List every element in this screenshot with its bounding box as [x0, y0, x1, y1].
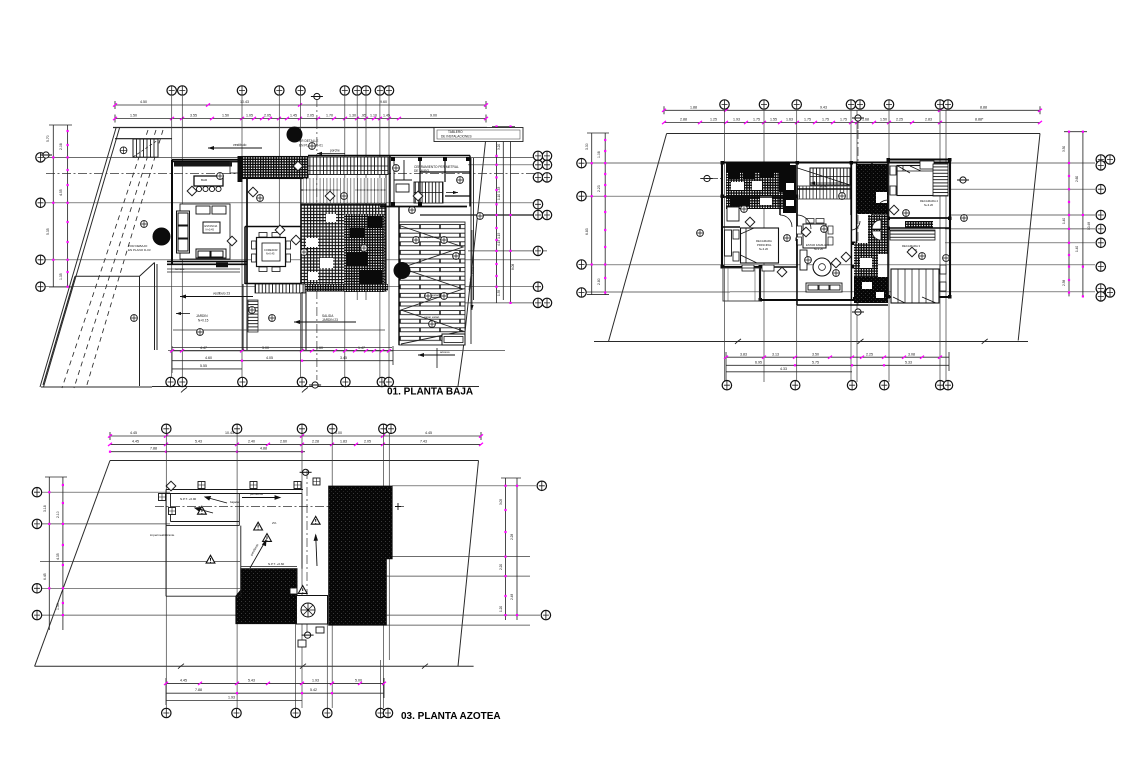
p1 hall between porch and patio: [301, 175, 386, 204]
p3 left dim texts: [43, 505, 60, 610]
svg-text:3.05: 3.05: [499, 499, 503, 505]
svg-text:2.08: 2.08: [59, 143, 63, 150]
svg-text:2.20: 2.20: [499, 564, 503, 570]
p1 grid bubbles top row: [167, 86, 394, 95]
svg-text:4.55: 4.55: [59, 189, 63, 196]
svg-text:2.23: 2.23: [597, 185, 601, 192]
svg-text:1.40: 1.40: [1062, 218, 1066, 224]
svg-text:7.43: 7.43: [420, 439, 427, 443]
p2 section centerline vertical: [857, 130, 859, 305]
p2 section mark left: [700, 175, 722, 181]
p1 service rooms right wing: [394, 160, 412, 203]
svg-text:4.50: 4.50: [140, 100, 147, 104]
p2 balcony below left bedroom: [723, 268, 760, 301]
p3 bottom dim ticks: [164, 682, 386, 695]
p1 garage box bottom: [442, 334, 465, 345]
p1 oplus symbols: [120, 143, 483, 336]
svg-text:7.88: 7.88: [195, 688, 202, 692]
svg-text:3.13: 3.13: [772, 352, 779, 356]
p3 left grid horizontals: [40, 492, 300, 615]
p3 right dim ticks: [504, 485, 518, 617]
p1 terrace steps lower-left: [167, 269, 240, 272]
svg-text:7.88: 7.88: [150, 447, 157, 451]
p3 top dim ticks: [108, 434, 483, 452]
svg-text:porche: porche: [330, 149, 340, 153]
svg-text:1.50: 1.50: [130, 114, 137, 118]
p2 left dim texts: [585, 143, 601, 285]
svg-text:4.88: 4.88: [260, 447, 267, 451]
p1 bottom dim magenta ticks: [170, 349, 391, 362]
p2 right dim texts: [1062, 146, 1091, 286]
p2 top-right bedroom labels: [920, 199, 938, 207]
p2 left bedroom couch: [725, 207, 740, 256]
p1 patio bottom steps band: [300, 284, 388, 291]
p1 bottom dim texts: [200, 346, 365, 368]
svg-text:1.50: 1.50: [222, 114, 229, 118]
p2 section mark bottom: [852, 309, 864, 315]
p3 left-edge vent boxes: [159, 494, 176, 515]
p3 right dim stack: [501, 478, 521, 620]
p1 stair darker blobs: [346, 216, 382, 288]
p3 section mark top: [300, 469, 312, 475]
p2 site boundary bottom edge: [594, 341, 1028, 343]
p2 door jamb blobs: [721, 158, 952, 302]
p2 sala label: [806, 243, 829, 251]
p1 heavy grid segment right: [420, 214, 547, 216]
p1 left grid horizontals: [45, 157, 540, 286]
p1 parking bars area: [399, 222, 465, 345]
p2 laundry top band: [726, 164, 796, 214]
p1 grid bubbles left column: [36, 153, 45, 292]
p1 living table: [203, 222, 220, 233]
svg-text:N.P.T. +6.60: N.P.T. +6.60: [268, 562, 285, 566]
p2 shaft dark center: [856, 164, 888, 214]
svg-text:vestibulo: vestibulo: [233, 143, 246, 147]
svg-text:1.47: 1.47: [358, 346, 365, 350]
p2 laundry white bits: [731, 181, 794, 206]
p3 grid bubbles top row: [162, 424, 396, 433]
p1 section mark bottom: [309, 382, 321, 388]
p3 terrace lower-left outline: [166, 494, 241, 597]
svg-text:sube: sube: [820, 185, 827, 189]
p1 stair dark block in patio: [344, 214, 384, 292]
p1 site boundary right edge: [458, 128, 487, 387]
p2 bottom-right closet: [890, 221, 935, 240]
svg-text:4.45: 4.45: [425, 431, 432, 435]
p1 top dimension line 1: [115, 101, 486, 109]
svg-text:3.20: 3.20: [497, 144, 501, 150]
p3 level text: [180, 497, 285, 566]
p2 site boundary left edge: [609, 134, 667, 342]
svg-text:4.35: 4.35: [56, 553, 60, 560]
p1 tree top: [287, 127, 303, 143]
svg-text:1.55: 1.55: [770, 118, 777, 122]
svg-text:N+0.45: N+0.45: [266, 252, 275, 256]
p3 grid bubbles bottom row: [162, 708, 393, 717]
svg-text:BAR: BAR: [201, 178, 208, 182]
svg-text:1.25: 1.25: [710, 118, 717, 122]
svg-text:2.80: 2.80: [597, 278, 601, 285]
svg-text:2.28: 2.28: [510, 534, 514, 540]
p1 right dim texts: [497, 144, 515, 296]
p2 bottom-right bedroom walls: [888, 228, 950, 297]
svg-text:1.88: 1.88: [690, 105, 697, 109]
p2 round table: [813, 258, 831, 276]
p2 building outer walls: [722, 160, 950, 301]
p1 patio tile hatch: [301, 204, 386, 291]
svg-text:1.45: 1.45: [290, 114, 297, 118]
p3 bottom dim texts: [180, 678, 362, 699]
p2 site boundary right edge: [1018, 134, 1040, 341]
p3 break marks bottom: [178, 664, 428, 669]
p1 break marks street: [181, 387, 308, 392]
p1 left dim stack: [49, 125, 72, 287]
p1 right dim stack: [492, 127, 515, 304]
p3 top dimension line 2: [110, 443, 481, 445]
svg-text:1.70: 1.70: [326, 114, 333, 118]
svg-text:.95: .95: [361, 114, 366, 118]
p1 boundary fence right: [471, 158, 474, 344]
p1 corridor left jamb band: [238, 156, 243, 182]
p3 section centerline vertical: [306, 470, 308, 640]
p3 title: [401, 711, 501, 722]
svg-text:JARDIN: JARDIN: [196, 314, 208, 318]
p1 right wing interior walls: [420, 158, 470, 206]
svg-text:TABLERO: TABLERO: [448, 130, 463, 134]
p1 terrace label: [175, 262, 228, 271]
p3 grid verticals: [166, 433, 389, 708]
svg-text:4.45: 4.45: [132, 439, 139, 443]
svg-text:5.43: 5.43: [195, 439, 202, 443]
p3 centerline dashdot horizontal: [155, 506, 405, 508]
svg-text:9.43: 9.43: [820, 105, 827, 109]
p1 top dim texts: [130, 100, 437, 118]
p1 diamond tags: [187, 161, 423, 246]
svg-text:ESTANCIA: ESTANCIA: [205, 224, 218, 228]
p3 site boundary left edge: [35, 461, 110, 667]
p1 vestibule hatch corridor: [242, 157, 308, 179]
svg-text:2.05: 2.05: [307, 114, 314, 118]
svg-text:N+0.45: N+0.45: [206, 228, 215, 232]
svg-text:terraza: terraza: [175, 267, 185, 271]
p2 grid bubbles left column: [577, 159, 586, 298]
p2 stair top-center: [798, 168, 851, 199]
svg-text:1.40: 1.40: [1075, 246, 1079, 252]
svg-text:1.75: 1.75: [840, 118, 847, 122]
svg-text:10.48: 10.48: [1087, 222, 1091, 230]
svg-text:5.35: 5.35: [46, 228, 50, 235]
p2 site boundary top edge: [667, 133, 1040, 135]
svg-text:5.00: 5.00: [355, 678, 362, 682]
svg-text:2%: 2%: [272, 521, 277, 525]
p1 dining table: [252, 233, 291, 272]
p2 top dim texts: [680, 105, 987, 121]
svg-text:5.33: 5.33: [905, 361, 912, 365]
svg-text:4.05: 4.05: [266, 356, 273, 360]
p1 building left wall: [171, 160, 173, 264]
p1 upper-right planter text: [441, 130, 472, 139]
p1 car arrow bottom: [418, 348, 455, 368]
p1 section centerline vertical: [316, 120, 318, 380]
p3 spiral stair: [301, 603, 315, 617]
svg-text:3.50: 3.50: [812, 352, 819, 356]
p1 right partial grid horizontals: [462, 165, 547, 303]
svg-text:acceso: acceso: [440, 350, 450, 354]
svg-text:N+3.20: N+3.20: [814, 247, 824, 251]
p1 left dim ticks: [52, 130, 68, 288]
p1 column stubs bottom: [243, 284, 306, 350]
p1 porch hatch: [308, 157, 388, 175]
p1 stairs upper-left site: [115, 139, 172, 158]
p1 centerline dashdot: [46, 173, 540, 175]
p1 street line bottom: [41, 386, 479, 389]
p1 right dim ticks: [495, 125, 511, 304]
p3 middle roof boundary: [241, 494, 302, 596]
svg-text:3.83: 3.83: [740, 352, 747, 356]
p2 left dim stack: [587, 133, 609, 295]
p1 upper-right planter rect: [434, 128, 523, 142]
p1 exterior stairs right: [414, 182, 443, 203]
svg-text:5.43: 5.43: [248, 678, 255, 682]
p3 slope labels: [150, 492, 277, 557]
svg-text:1.35: 1.35: [497, 290, 501, 296]
p3 level step line: [241, 566, 297, 568]
p2 oplus symbols: [697, 193, 968, 277]
svg-text:2.10: 2.10: [56, 511, 60, 518]
p3 roof dark region B: [236, 569, 297, 624]
svg-text:4.47: 4.47: [200, 346, 207, 350]
svg-text:5.70: 5.70: [46, 135, 50, 142]
svg-text:3.08: 3.08: [908, 352, 915, 356]
svg-text:8.88: 8.88: [980, 105, 987, 109]
p3 spiral stair white box: [297, 596, 328, 625]
p1 right wing bottom wall: [380, 206, 467, 208]
p2 top-right closet hatch: [933, 164, 948, 196]
p1 grid bubbles right column: [533, 151, 551, 307]
p2 diamond tags: [745, 205, 917, 277]
p2 grid bubbles top row: [720, 100, 953, 109]
p1 ramp label rotated: [467, 230, 475, 310]
p1 patio white spots: [306, 214, 336, 280]
svg-text:1.63: 1.63: [786, 118, 793, 122]
p1 vestibule arrow: [208, 143, 262, 150]
svg-text:2.05: 2.05: [264, 114, 271, 118]
p3 site boundary bottom edge: [35, 665, 474, 667]
p2 grid bubbles right column: [1096, 155, 1115, 301]
p2 top dimension line 2: [664, 122, 1040, 124]
svg-text:1.05: 1.05: [246, 114, 253, 118]
p1 porch top wall right: [308, 156, 390, 207]
p2 left grid horizontals: [585, 163, 1095, 292]
p2 right dim stack: [1064, 132, 1087, 297]
p1 site boundary top edge: [113, 127, 487, 129]
p2 left bedroom labels: [756, 239, 772, 251]
p3 warning triangles: [198, 506, 321, 593]
p3 left dim stack: [45, 477, 67, 630]
svg-text:8.88*: 8.88*: [975, 118, 984, 122]
p1 top dim magenta ticks: [113, 103, 488, 120]
p3 grid bubbles right column: [537, 481, 551, 620]
svg-text:JARDIN 23: JARDIN 23: [322, 318, 338, 322]
p1 kitchen counter: [174, 162, 247, 173]
p2 center bath dark: [868, 215, 888, 243]
p1 kitchen wall divider: [246, 160, 248, 284]
svg-text:1.75: 1.75: [804, 118, 811, 122]
p2 top-right bedroom walls: [888, 160, 950, 219]
p1 stairs arrow right: [446, 191, 458, 194]
svg-text:1.35: 1.35: [59, 273, 63, 280]
svg-text:1.35: 1.35: [56, 603, 60, 610]
svg-text:6.45: 6.45: [43, 573, 47, 580]
p3 site boundary right edge: [458, 461, 479, 667]
p1 garden lower boundary: [173, 329, 385, 331]
svg-text:vestibulo 23: vestibulo 23: [213, 292, 230, 296]
p1 building top wall: [172, 160, 247, 162]
p1 right wing jambs: [391, 157, 470, 206]
svg-text:6.95: 6.95: [755, 361, 762, 365]
p3 right partial grid horizontals: [386, 486, 540, 625]
p2 sala sofa: [800, 250, 842, 292]
p3 vent boxes on parapet: [166, 478, 320, 491]
p1 jardin arrow: [176, 312, 190, 315]
p1 tree right: [394, 262, 411, 279]
p2 center dining table: [797, 219, 834, 249]
svg-text:4.45: 4.45: [180, 678, 187, 682]
p3 right dim texts: [499, 499, 514, 612]
svg-text:2.88: 2.88: [680, 118, 687, 122]
svg-text:N+3.20: N+3.20: [924, 203, 934, 207]
svg-text:N+3.20: N+3.20: [759, 247, 769, 251]
p2 bottom-center white notch: [862, 282, 884, 298]
p3 parapet strip top-left: [166, 490, 303, 526]
p1 terrace edge line: [172, 347, 392, 349]
p1 living sofa L: [177, 211, 227, 258]
p2 bottom dim ticks: [724, 356, 942, 367]
p1 small porch ladder lower: [248, 300, 258, 332]
svg-text:5.55: 5.55: [200, 364, 207, 368]
p1 hall deck lines: [303, 178, 386, 203]
p3 small rects near stair: [290, 588, 324, 647]
svg-text:1.83: 1.83: [340, 439, 347, 443]
p2 laundry dark block top-left: [726, 165, 796, 209]
svg-text:N.P.T. +6.90: N.P.T. +6.90: [180, 497, 197, 501]
svg-text:10.43: 10.43: [240, 100, 249, 104]
svg-text:COMEDOR: COMEDOR: [264, 248, 278, 252]
svg-text:cajon estac.: cajon estac.: [424, 315, 440, 319]
svg-text:2.40: 2.40: [248, 439, 255, 443]
p2 bottom dim texts: [740, 352, 915, 371]
svg-text:2.05: 2.05: [364, 439, 371, 443]
p1 parking zigzag: [401, 226, 463, 344]
p2 hall walls center: [797, 163, 888, 231]
svg-text:1.75: 1.75: [753, 118, 760, 122]
svg-text:3.30: 3.30: [585, 143, 589, 150]
p3 top dimension line 3: [110, 451, 305, 453]
p1 right wing top wall: [390, 156, 470, 207]
svg-text:3.45: 3.45: [340, 356, 347, 360]
svg-text:bajada: bajada: [230, 500, 239, 504]
p1 dining patio walls: [245, 227, 301, 285]
svg-text:4.45: 4.45: [130, 431, 137, 435]
svg-text:4.33: 4.33: [780, 367, 787, 371]
svg-text:2.25: 2.25: [866, 352, 873, 356]
svg-text:4.60: 4.60: [205, 356, 212, 360]
p1 living bottom wall terrace: [167, 262, 247, 265]
p1 bottom dimension lines: [172, 346, 393, 373]
p1 salida arrow center-bottom: [294, 314, 356, 324]
p2 section mark top: [852, 115, 864, 130]
p2 bottom-right bed: [891, 265, 946, 303]
p2 left bed: [733, 228, 779, 271]
p2 bottom dimension lines: [726, 352, 949, 380]
svg-text:1.93: 1.93: [312, 678, 319, 682]
p2 break marks bottom: [735, 339, 988, 344]
svg-text:3.18: 3.18: [43, 505, 47, 512]
svg-text:2.60: 2.60: [1075, 176, 1079, 182]
svg-text:cajon estac.: cajon estac.: [424, 235, 440, 239]
p1 grid bubbles bottom row: [166, 377, 394, 386]
svg-text:2.60: 2.60: [280, 439, 287, 443]
p1 acceso arrow center: [180, 292, 253, 299]
p1 grid verticals: [172, 96, 389, 378]
p1 section mark left: [40, 152, 52, 158]
p1 arrow porch: [317, 149, 345, 156]
svg-text:2.83: 2.83: [925, 118, 932, 122]
svg-text:2.28: 2.28: [312, 439, 319, 443]
p2 bottom-right bedroom labels: [902, 244, 920, 252]
p1 top dimension line 2: [115, 115, 486, 123]
p1 left dim texts: [46, 135, 63, 280]
svg-text:1.08: 1.08: [597, 151, 601, 158]
p2 right partial grid horizontals: [730, 189, 1095, 292]
svg-text:8.08: 8.08: [511, 264, 515, 270]
p3 left dim ticks: [48, 484, 64, 616]
p2 bottom-center dark stairwell: [854, 277, 888, 303]
p3 bottom dimension lines: [166, 678, 384, 705]
svg-text:1.20: 1.20: [499, 606, 503, 612]
svg-text:1.30: 1.30: [349, 114, 356, 118]
svg-text:5.42: 5.42: [310, 688, 317, 692]
p3 section mark right arrow: [395, 503, 401, 510]
svg-text:9.00: 9.00: [430, 114, 437, 118]
p3 slope arrows: [195, 496, 317, 568]
p2 mid dark block: [854, 243, 888, 277]
p1 tree left: [153, 228, 171, 246]
p2 top dimension line 1: [664, 106, 1040, 114]
p2 left bedroom walls: [722, 197, 797, 267]
p3 roof dark region A: [329, 486, 392, 625]
p2 right dim ticks: [1068, 131, 1084, 298]
p1 parking texts: [424, 235, 440, 319]
svg-text:DE INSTALACIONES: DE INSTALACIONES: [441, 135, 472, 139]
svg-text:03. PLANTA AZOTEA: 03. PLANTA AZOTEA: [401, 711, 501, 722]
p1 jardin area texts: [196, 314, 209, 323]
p1 note text right: [414, 165, 459, 173]
p1 parking left edge wall: [398, 207, 400, 346]
p2 section mark right: [957, 177, 969, 183]
p2 stair arrow: [810, 181, 845, 188]
svg-text:1.50: 1.50: [880, 118, 887, 122]
svg-text:1.10 1.43: 1.10 1.43: [497, 186, 501, 200]
p1 living room rug: [180, 204, 230, 259]
p3 lower vertical drops: [296, 624, 381, 708]
svg-text:5.75: 5.75: [812, 361, 819, 365]
p2 wall pair center verticals: [852, 163, 857, 300]
svg-text:3.30: 3.30: [1062, 146, 1066, 152]
p3 top dim texts: [130, 431, 432, 451]
svg-text:2.38: 2.38: [1062, 280, 1066, 286]
svg-text:6.83: 6.83: [585, 228, 589, 235]
